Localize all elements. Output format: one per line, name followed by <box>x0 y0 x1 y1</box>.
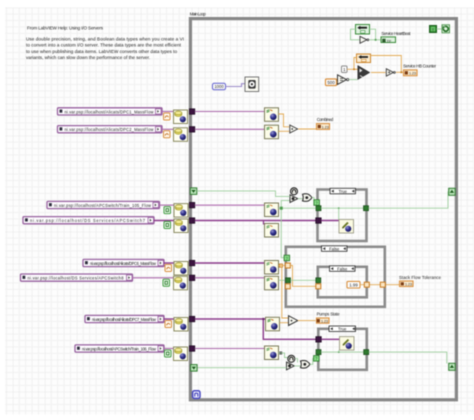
read icon R2 (outside) <box>174 128 188 142</box>
read icon R3 (outside) <box>174 204 188 218</box>
indicator Pumps State <box>317 318 330 324</box>
svg-text:Service HeartBeat: Service HeartBeat <box>381 31 411 36</box>
wire R7 box to icon <box>164 318 174 320</box>
shared variable R1 DPC1_MassFlow <box>58 108 163 115</box>
wire shift reg to comparator <box>197 367 286 369</box>
junction dot <box>353 68 355 70</box>
tunnel R7 <box>189 316 195 322</box>
feedback node (numeric) <box>357 54 371 63</box>
wire R3 into loop <box>195 204 265 206</box>
svg-text:ni.var.psp://localhost/Alicats: ni.var.psp://localhost/Alicats/DPC6_Mass… <box>90 261 156 266</box>
read icon R7 (outside) <box>174 318 188 332</box>
svg-text:variants, which can slow down: variants, which can slow down the perfor… <box>26 55 150 60</box>
read icon R4 (outside) <box>174 219 188 233</box>
wire R5 into loop <box>195 262 265 264</box>
or gate bottom <box>301 361 311 369</box>
tunnel R8 <box>189 346 195 352</box>
junction dot + drop to write icon <box>338 207 340 209</box>
read icon R2 (inside) <box>265 125 279 139</box>
conversion bullet R3 <box>164 207 171 214</box>
boolean wire through case <box>321 207 364 209</box>
read icon R3 (inside) <box>265 203 279 217</box>
case label True (bottom) <box>329 326 356 332</box>
read icon R8 (outside) <box>174 347 188 361</box>
wire upper shift register to comparator <box>197 191 290 197</box>
svg-text:Service HB Counter: Service HB Counter <box>403 63 437 68</box>
wire R3 box to icon <box>159 204 174 206</box>
tunnel R4 <box>189 218 195 224</box>
read icon R7 (inside) <box>266 317 280 331</box>
case structure bottom True frame <box>318 329 367 370</box>
shared variable R5 DPC6_MassFlow <box>83 259 164 266</box>
numeric constant 500 <box>326 79 337 86</box>
wire junction to case tunnel <box>283 207 316 209</box>
numeric constant 1000 <box>213 83 226 89</box>
orange junction square R5 <box>279 264 282 267</box>
wire icon1 to add <box>279 114 290 127</box>
loop iteration terminal <box>193 391 200 399</box>
conversion bullet R7 <box>165 321 172 328</box>
case structure inner False frame <box>318 267 367 298</box>
comparator triangle <box>290 195 298 203</box>
indicator Stack Flow Tolerance <box>400 281 414 287</box>
wire R5 to outer case tunnel <box>279 265 286 267</box>
wire purple to write icon <box>321 220 339 222</box>
add function pumps <box>289 316 298 326</box>
conversion bullet R6 <box>163 279 170 286</box>
tunnel R1 <box>189 109 195 115</box>
wire increment to indicator with feedback branch <box>371 56 404 73</box>
indicator Service HeartBeat (boolean) <box>381 37 396 43</box>
wire R5 drop to pumps comparator <box>282 267 289 318</box>
tunnel green bottom case right <box>364 350 369 355</box>
indicator Combined <box>317 124 330 130</box>
tunnel green on case left <box>316 206 321 211</box>
svg-text:ni.var.psp://localhost/DS Serv: ni.var.psp://localhost/DS Services/APCSw… <box>30 218 146 223</box>
svg-text:False: False <box>329 246 340 251</box>
svg-text:False: False <box>337 266 348 271</box>
wire icon R3 output junction <box>279 201 291 258</box>
read icon R8 (inside) <box>265 346 279 360</box>
wire 1.99 out <box>360 284 399 286</box>
tunnel R3 <box>189 202 195 208</box>
read icon R4 (inside) <box>265 224 279 238</box>
wire 500 to equal <box>337 81 338 83</box>
wire R8 into loop <box>195 348 265 350</box>
svg-text:ni.var.psp://localhost/Alicats: ni.var.psp://localhost/Alicats/DPC2_Mass… <box>65 127 154 132</box>
selector terminal bottom case <box>314 356 320 362</box>
svg-text:ni.var.psp://localhost/Alicats: ni.var.psp://localhost/Alicats/DPC7_Mass… <box>92 317 156 322</box>
svg-text:Pumps State: Pumps State <box>317 312 341 317</box>
junction + drop to write icon <box>338 351 340 353</box>
select function <box>358 66 370 80</box>
svg-text:Stack Flow Tolerance: Stack Flow Tolerance <box>399 275 442 280</box>
indicator Service HB Counter <box>404 70 418 76</box>
read icon R1 (inside) <box>265 108 279 122</box>
conversion bullet R4 <box>164 222 171 229</box>
wire R4 branch into icon <box>263 221 265 225</box>
shared variable R4 APCSwitch7 <box>23 217 154 224</box>
read icon R6 (inside) <box>265 276 279 290</box>
wire R8 out to gates <box>279 353 288 358</box>
wire R1 box to icon <box>161 111 174 113</box>
svg-text:ni.var.psp://localhost/APCSwit: ni.var.psp://localhost/APCSwitch/Train_1… <box>54 203 151 208</box>
conversion bullet R5 <box>165 265 172 272</box>
svg-text:ni.var.psp://localhost/DS Serv: ni.var.psp://localhost/DS Services/APCSw… <box>28 276 125 281</box>
wire equal to select <box>349 79 358 81</box>
wire R6 into loop <box>195 277 265 279</box>
conversion bullet R2 <box>164 131 171 138</box>
shift register left (down arrow) <box>191 365 198 372</box>
shared variable R6 APCSwitch8 <box>21 274 133 281</box>
wire purple to write icon <box>321 338 339 340</box>
tunnel orange inner right <box>364 282 369 287</box>
tunnel orange inner left <box>316 284 321 289</box>
case structure outer False frame <box>286 247 385 307</box>
svg-text:500: 500 <box>327 80 335 85</box>
junction box green <box>280 207 283 210</box>
while loop Main Loop frame <box>190 19 456 400</box>
wire not to indicator <box>369 39 381 41</box>
svg-text:ni.var.psp://localhost/APCSwit: ni.var.psp://localhost/APCSwitch/Train_1… <box>82 346 156 351</box>
svg-text:Use double precision, string,: Use double precision, string, and Boolea… <box>26 36 184 41</box>
selector terminal bright green <box>314 200 320 206</box>
selector terminal outer case <box>284 255 290 261</box>
numeric constant 1 <box>342 66 348 73</box>
green junction square R8 <box>279 352 282 355</box>
wire heartbeat feedback loop <box>351 29 360 40</box>
increment <box>386 69 395 76</box>
wire or to bottom case selector <box>310 358 314 364</box>
wire R8 box to icon <box>164 348 174 350</box>
shared variable R7 DPC7_MassFlow <box>85 315 164 322</box>
wire icon2 to add <box>279 130 290 132</box>
feedback node (boolean) <box>356 25 370 35</box>
wire R7 branch down to bottom case <box>263 319 315 339</box>
comparator triangle bottom <box>287 362 295 370</box>
write variable icon (bottom case) <box>340 337 355 351</box>
wire feedback node output <box>370 29 376 40</box>
svg-text:ni.var.psp://localhost/Alicats: ni.var.psp://localhost/Alicats/DPC1_Mass… <box>65 109 154 114</box>
comment text: title <box>27 26 104 31</box>
case label False (outer) <box>322 246 348 252</box>
wire R1 into loop <box>195 111 265 113</box>
boolean wire through bottom case <box>321 351 364 353</box>
wire R2 box to icon <box>161 128 174 130</box>
tunnel green on case right <box>364 206 369 211</box>
svg-text:True: True <box>338 327 347 332</box>
not gate <box>360 36 369 43</box>
tunnel green bottom case left <box>316 350 321 355</box>
svg-text:1.23: 1.23 <box>405 283 412 287</box>
svg-text:Combined: Combined <box>317 117 334 122</box>
loop condition terminal <box>442 25 450 33</box>
wire 1 to select <box>347 68 358 70</box>
tunnel R2 <box>189 127 195 133</box>
tunnel orange outer left lowest <box>285 284 290 289</box>
wire add to Combined <box>298 128 316 130</box>
tunnel orange outer left <box>285 263 290 268</box>
wire bottom case to loop-edge tunnel <box>369 352 447 363</box>
read icon R1 (outside) <box>174 110 188 124</box>
read icon R5 (outside) <box>174 262 188 276</box>
write variable icon (upper case) <box>339 220 354 234</box>
tunnel purple bottom case left <box>316 337 322 343</box>
wire comp to or <box>298 198 303 200</box>
svg-text:True: True <box>338 189 347 194</box>
wire R6 box to icon <box>132 277 174 279</box>
svg-text:1000: 1000 <box>214 84 224 89</box>
tunnel purple on case left <box>316 218 322 224</box>
case structure upper True frame <box>318 190 367 242</box>
round comparator (empty?) <box>291 188 298 195</box>
wire orange inside outer case <box>290 266 316 287</box>
read icon R5 (inside) <box>265 261 279 275</box>
shared variable R2 DPC2_MassFlow <box>58 126 163 133</box>
wire or to selector <box>312 198 314 201</box>
wire T to loop condition <box>437 28 443 30</box>
shared variable R3 Train_105_Flow <box>47 201 160 208</box>
svg-text:TF: TF <box>387 38 392 43</box>
wait until next ms multiple U-timer <box>245 77 259 92</box>
wire select to increment <box>371 72 386 74</box>
wires gates to or <box>294 359 300 366</box>
case label False (inner) <box>330 266 356 272</box>
shift register left upper (down arrow) <box>190 188 197 195</box>
tunnel with up-arrow on loop right edge (top) <box>449 188 456 195</box>
wire R4 into loop (continues to case) <box>195 220 317 222</box>
tunnel green outer left lower <box>286 278 291 283</box>
boolean constant T <box>430 26 437 33</box>
read icon R6 (outside) <box>174 276 188 290</box>
junction dot <box>375 39 377 41</box>
wire R5 box to icon <box>164 262 174 264</box>
tunnel R6 <box>189 275 195 281</box>
wire green inside outer case <box>291 279 317 281</box>
wire add to Pumps State <box>298 320 316 322</box>
wire R6 to outer case tunnel <box>279 279 286 281</box>
round and gate <box>288 355 295 362</box>
svg-text:From LabVIEW Help: Using I/O S: From LabVIEW Help: Using I/O Servers <box>27 26 104 31</box>
numeric constant 1.99 <box>347 281 360 288</box>
wire R4 box to icon <box>154 220 174 222</box>
wire 1000 to wait <box>226 84 246 87</box>
wire R2 into loop <box>195 128 265 130</box>
conversion bullet R1 <box>164 113 171 120</box>
svg-text:1.23: 1.23 <box>321 320 328 324</box>
add function <box>290 125 298 133</box>
tunnel R5 <box>189 260 195 266</box>
tunnel with up-arrow on loop right edge (bottom) <box>449 363 456 370</box>
svg-text:1.99: 1.99 <box>349 283 358 288</box>
wire feedback output loop down <box>354 58 358 70</box>
tunnel green inner left <box>316 278 321 283</box>
tunnel orange outer right <box>380 282 385 287</box>
svg-text:1.23: 1.23 <box>409 72 416 76</box>
or gate <box>303 194 313 202</box>
case label True <box>330 188 356 194</box>
wire R7 into loop <box>195 318 266 320</box>
conversion bullet R8 <box>165 350 172 357</box>
svg-text:Main Loop: Main Loop <box>190 11 207 16</box>
wire icon R7 to add <box>280 322 289 324</box>
junction dot <box>400 71 402 73</box>
svg-text:to convert into a custom I/O s: to convert into a custom I/O server. The… <box>26 43 182 48</box>
svg-text:to use when publishing data it: to use when publishing data items. LabVI… <box>26 49 177 54</box>
shared variable R8 Train_106_Flow <box>75 345 164 352</box>
comment text: paragraph <box>26 36 184 60</box>
svg-text:1.23: 1.23 <box>322 125 329 129</box>
equal? comparator <box>338 75 349 85</box>
wire case to loop-edge tunnel <box>369 192 450 208</box>
